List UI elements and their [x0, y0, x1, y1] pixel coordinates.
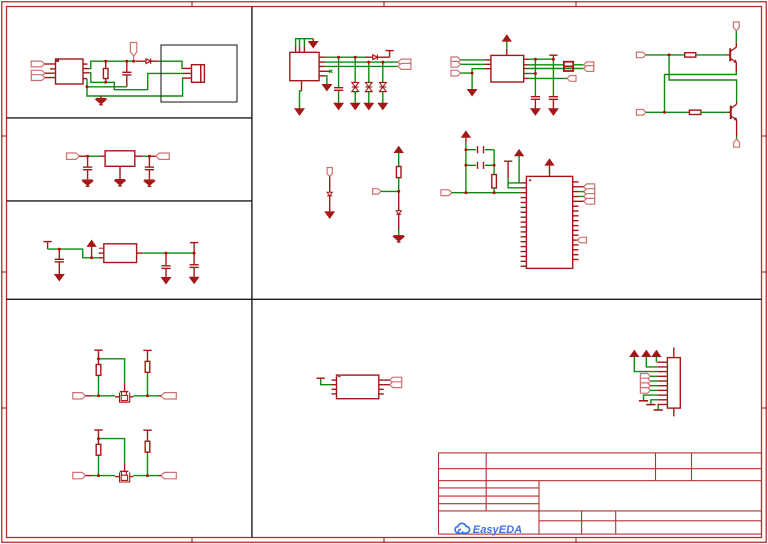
section divider horizontal row2: [7, 200, 252, 202]
wire output: [143, 252, 195, 254]
wire power to pin: [518, 156, 520, 183]
diode D2: [373, 55, 378, 60]
port in B: [451, 61, 461, 67]
MCU U6 box: [526, 176, 572, 268]
ground arrow top: [312, 39, 314, 42]
title col line 2: [538, 481, 540, 534]
port up pennant: [733, 22, 739, 31]
junction dot: [97, 474, 100, 477]
border tick top x384: [383, 2, 385, 7]
junction dot: [104, 60, 107, 63]
ground arrow Z1: [351, 103, 360, 109]
title row line 3: [439, 487, 540, 489]
section divider horizontal row1: [7, 117, 252, 119]
border tick top x192: [191, 2, 193, 7]
title col line 6: [691, 453, 693, 481]
capacitor C1: [126, 61, 128, 72]
junction dot: [148, 155, 151, 158]
title row line 4: [439, 495, 540, 497]
section divider horizontal full-width: [7, 298, 762, 300]
wire R3 to Q2: [701, 111, 728, 113]
port output right: [156, 153, 169, 159]
wire bottom to gnd: [300, 91, 302, 109]
wire to switch top: [99, 439, 125, 464]
resistor pullup right: [147, 452, 149, 476]
wire diode to speaker top: [159, 61, 183, 68]
wire input: [48, 249, 99, 258]
resistor pullup right: [147, 372, 149, 396]
wire branch to C1 bottom: [87, 86, 127, 88]
junction dot: [534, 58, 537, 61]
ground arrow C5: [162, 278, 171, 284]
regulator U2 box: [105, 151, 135, 167]
U6 top pin: [549, 165, 551, 176]
border tick left y408: [2, 407, 7, 409]
section divider vertical: [251, 7, 253, 538]
wire R4 down: [398, 178, 400, 192]
wire D2 to T flag: [377, 56, 389, 58]
port crystal line: [441, 190, 452, 196]
power flag top: [545, 159, 553, 165]
diode D3: [327, 192, 332, 196]
shield box around speaker: [161, 45, 237, 102]
net flag T U5: [552, 55, 554, 59]
title col line 3: [581, 511, 583, 534]
wire U1 pin4 ground net: [87, 78, 183, 96]
wire left segment: [93, 475, 115, 477]
EasyEDA logo cloud: [455, 523, 470, 533]
junction dot: [493, 164, 496, 167]
port data- arrow: [398, 63, 411, 69]
diode D1: [146, 59, 151, 64]
junction dot: [552, 58, 555, 61]
ground arrow C9: [549, 109, 558, 115]
net flag T crystal: [504, 160, 512, 162]
wire flag b to pin2: [646, 357, 657, 367]
wire to R4: [398, 153, 400, 167]
U4 bottom pin: [301, 81, 303, 91]
junction dot: [493, 191, 496, 194]
wire bus red segment: [136, 60, 146, 62]
port down pennant: [734, 139, 740, 147]
U1 pin2 stub left: [50, 68, 56, 70]
port in C: [451, 70, 461, 76]
junction dot: [534, 72, 537, 75]
wire U4 pin5 to gnd: [325, 76, 327, 85]
capacitor C2: [87, 156, 89, 166]
wire pin4: [529, 73, 536, 75]
border tick top x576: [575, 2, 577, 7]
capacitor C9: [549, 96, 558, 98]
speaker LS1 body: [192, 65, 201, 83]
connector P1 left port pin1: [31, 61, 45, 67]
wire gnd2: [651, 400, 657, 404]
junction dot: [125, 60, 128, 63]
wire branch to gnd: [471, 73, 473, 89]
U7 pin1 marker: [338, 376, 341, 378]
capacitor C8: [531, 96, 540, 98]
port J1 p4: [640, 374, 650, 380]
wire FB1 out: [573, 64, 584, 66]
amplifier U1 box: [56, 59, 84, 84]
ground arrow Z2: [364, 103, 373, 109]
wire P2 to U1 pin3: [45, 72, 56, 74]
junction dot: [90, 256, 93, 259]
wire long line: [452, 192, 521, 194]
power flag J1 b: [642, 351, 650, 357]
port CANH: [584, 62, 594, 68]
wire VCC line: [529, 58, 554, 60]
U2 left pin: [99, 155, 105, 157]
resistor pullup left: [98, 455, 100, 475]
wire right segment: [133, 475, 160, 477]
port in A: [451, 57, 461, 63]
port J1 p5: [640, 378, 650, 384]
resistor R3: [689, 110, 701, 114]
capacitor C4: [58, 249, 60, 259]
resistor R1: [105, 61, 107, 68]
junction dot: [165, 252, 168, 255]
port input left: [67, 153, 80, 159]
capacitor C10: [466, 149, 476, 151]
wire line2 data+: [325, 61, 398, 63]
svg-text:EasyEDA: EasyEDA: [473, 524, 522, 536]
U7 right pin stubs: [379, 379, 384, 381]
junction dot: [529, 179, 531, 181]
border tick left y136: [2, 135, 7, 137]
wire R2 to Q1: [696, 54, 727, 56]
wire P3 to U1 pin4: [45, 77, 56, 79]
junction dot: [668, 53, 671, 56]
junction dot: [132, 60, 135, 63]
junction dot: [58, 248, 61, 251]
capacitor C11: [466, 164, 476, 166]
power flag J1 a: [630, 351, 638, 357]
ground arrow C6: [190, 277, 199, 283]
junction dot: [146, 474, 149, 477]
title block border: [439, 453, 762, 534]
title col line 4: [615, 511, 617, 534]
junction dot: [97, 394, 100, 397]
U3 pin1 marker: [99, 247, 104, 249]
port pin red: [86, 395, 93, 397]
wire U2 out: [143, 155, 149, 157]
title row line 1: [439, 468, 762, 470]
wire capB to T stem: [493, 165, 495, 174]
ground C3: [144, 179, 154, 181]
ground arrow C7: [334, 103, 343, 109]
wire chain A: [329, 177, 331, 193]
U2 ground pin: [119, 166, 121, 179]
port data+ arrow: [398, 59, 411, 65]
ground C2: [82, 179, 92, 181]
power flag J1 c: [652, 351, 660, 357]
ground bar 1: [639, 400, 648, 402]
U4 top pin stubs: [295, 47, 297, 53]
ground arrow chain A: [325, 212, 334, 218]
border tick right y136: [762, 135, 767, 137]
net flag T left: [43, 241, 51, 243]
port J1 p7: [640, 388, 650, 394]
resistor R4: [396, 167, 401, 178]
TVS diode Z3: [382, 62, 384, 82]
title row line 6: [439, 510, 762, 512]
power flag crystal: [462, 131, 470, 137]
ground chain B: [394, 235, 404, 237]
pin wire to output port: [149, 155, 155, 157]
U5 right pin stubs: [524, 58, 529, 60]
wire in B: [461, 63, 486, 65]
wire base 1: [646, 54, 685, 56]
ground arrow bottom: [295, 109, 304, 115]
wire T to pins: [508, 178, 520, 183]
port pin5: [567, 76, 576, 82]
wire stubs U7 ports: [384, 379, 390, 381]
wire flag a to pin3: [634, 357, 657, 372]
wire junction to U2: [88, 155, 100, 157]
switch S body: [120, 391, 129, 393]
capacitor C5: [165, 253, 167, 265]
wire left segment: [93, 395, 115, 397]
IC U5 box: [491, 55, 524, 82]
J1 pin stubs: [657, 361, 667, 363]
U6 left pin stubs: [521, 182, 527, 184]
junction dot: [397, 190, 400, 193]
junction dot: [464, 164, 467, 167]
junction dot: [97, 357, 100, 360]
port CANL: [584, 66, 594, 72]
port chain A pennant: [327, 168, 332, 177]
wire line3 data-: [325, 65, 398, 67]
wire flag c to pin1: [655, 357, 657, 363]
ground bar 3: [654, 409, 663, 411]
border tick bottom x384: [383, 538, 385, 543]
U2 right pin: [135, 155, 143, 157]
resistor pullup left: [98, 375, 100, 395]
U4 right pin stubs: [319, 56, 325, 58]
title row line 7: [539, 520, 762, 522]
title col line 5: [655, 453, 657, 481]
port chain B: [373, 189, 381, 194]
title col line 1: [485, 453, 487, 511]
wire stubs to right ports: [579, 186, 584, 188]
U4 pin nc stub: [319, 70, 330, 72]
title row line 2: [439, 480, 762, 482]
regulator U3 box: [104, 244, 137, 263]
junction dot: [97, 437, 100, 440]
power flag U6 left: [515, 150, 523, 156]
wire port to chain B: [381, 190, 399, 192]
junction dot: [354, 56, 357, 59]
ground arrow pin5: [322, 85, 331, 91]
wire U5 pin5: [529, 77, 568, 79]
wire in A: [461, 59, 486, 61]
switch top pin: [124, 384, 126, 391]
Q1 emitter wire cross: [735, 62, 737, 72]
junction dot: [146, 394, 149, 397]
no-connect X: [329, 70, 332, 73]
power flag up: [503, 35, 511, 41]
IC U7 box: [337, 375, 379, 399]
wire gnd1: [644, 395, 658, 400]
wire vert A: [534, 59, 536, 96]
port U7 out2: [390, 382, 402, 388]
port key right: [161, 393, 176, 399]
wire base 2: [646, 111, 689, 113]
border tick left y272: [2, 271, 7, 273]
junction dot: [193, 252, 196, 255]
IC U4 box: [290, 52, 319, 80]
junction dot: [104, 81, 107, 84]
net flag T U7: [317, 377, 325, 379]
port J1 p6: [640, 383, 650, 389]
junction dot: [464, 148, 467, 151]
Q1 collector wire: [735, 42, 737, 47]
voltage flag VCC pennant: [130, 43, 136, 57]
switch S body: [120, 470, 129, 472]
connector J1 body: [667, 358, 680, 409]
ground G1: [100, 96, 102, 98]
U1 right pin stubs: [83, 63, 88, 65]
transistor Q2: [730, 106, 732, 120]
ground arrow C8: [531, 109, 540, 115]
capacitor C3: [148, 156, 150, 166]
wire line CANH: [529, 64, 564, 66]
wire line CANL: [529, 68, 584, 70]
diode D4: [398, 191, 400, 210]
U1 pin1 marker: [57, 60, 59, 62]
net flag T right: [190, 242, 198, 244]
junction dot: [663, 111, 666, 114]
ground arrow C4: [55, 275, 64, 281]
connector P3 left port pin4: [31, 75, 45, 81]
TVS diode Z2: [368, 62, 370, 82]
U5 top pin: [506, 49, 508, 56]
net flag T left: [98, 350, 100, 359]
switch side pins: [115, 396, 120, 398]
wire net U1 pin3 to speaker mid: [89, 73, 183, 90]
switch top pin: [124, 464, 126, 471]
ground arrow Z3: [378, 103, 387, 109]
port U6 lower right: [578, 237, 587, 243]
U6 right ports: [584, 184, 595, 190]
net flag T: [385, 50, 393, 52]
speaker LS1 pins: [183, 67, 192, 69]
title row line 5: [439, 503, 540, 505]
port drive 2: [636, 110, 646, 116]
wire right segment: [133, 395, 160, 397]
switch side pins: [115, 476, 120, 478]
junction dot: [471, 72, 474, 75]
net flag T right: [143, 429, 151, 431]
connector P2 left port pin3: [31, 70, 45, 76]
junction dot: [464, 191, 467, 194]
port key left: [73, 472, 86, 478]
speaker LS1 bar: [201, 65, 205, 83]
ground arrow U5: [468, 90, 477, 96]
port U7 out1: [390, 377, 402, 383]
TVS diode Z1: [354, 57, 356, 82]
junction dot: [86, 85, 89, 88]
U6 right pin stubs: [573, 181, 579, 183]
wire line1 VBUS: [325, 56, 366, 58]
junction dot: [86, 155, 89, 158]
wire crystal right vert: [493, 150, 495, 166]
U7 left pin stubs: [332, 379, 337, 381]
resistor R5: [492, 175, 497, 189]
J1 center line top: [673, 348, 675, 358]
wire gnd3: [657, 405, 659, 410]
junction dot: [367, 61, 370, 64]
border tick bottom x192: [191, 538, 193, 543]
transistor Q1: [729, 48, 731, 61]
port pin red: [86, 475, 93, 477]
net flag T left: [98, 430, 100, 439]
ground bar 2: [646, 404, 655, 406]
power flag chain B: [395, 147, 403, 153]
port key right: [161, 472, 176, 478]
ferrite bead FB1: [564, 62, 573, 71]
wire red to D2: [366, 56, 373, 58]
wires J1 ports: [650, 375, 657, 377]
U3 left pin stubs: [99, 252, 104, 254]
power flag up arrow: [87, 240, 95, 246]
wire T to U7 pin2: [321, 380, 332, 385]
capacitor C6: [190, 264, 199, 266]
junction dot: [337, 56, 340, 59]
capacitor C7: [338, 57, 340, 87]
pin wire to junction: [79, 155, 87, 157]
ground U2: [115, 179, 125, 181]
wire to switch top: [99, 359, 125, 384]
Q2 emitter wire: [736, 120, 738, 136]
border tick right y408: [762, 407, 767, 409]
U3 right pin: [137, 252, 143, 254]
wire U1 out to VCC bus: [89, 61, 136, 68]
border tick right y272: [762, 271, 767, 273]
port key left: [73, 393, 86, 399]
junction dot: [381, 61, 384, 64]
wire crystal left vert: [465, 143, 467, 193]
port drive 1: [636, 52, 645, 58]
wire vert B: [552, 59, 554, 96]
net flag T right: [143, 349, 151, 351]
J1 center line bottom: [673, 408, 675, 416]
wire cross to Q2 collector: [669, 55, 737, 102]
wire P1 to U1 pin1: [45, 63, 56, 65]
wire in C: [461, 69, 486, 73]
wire top pins to gnd flag: [296, 39, 314, 47]
resistor R2: [685, 53, 696, 57]
border tick bottom x576: [575, 538, 577, 543]
